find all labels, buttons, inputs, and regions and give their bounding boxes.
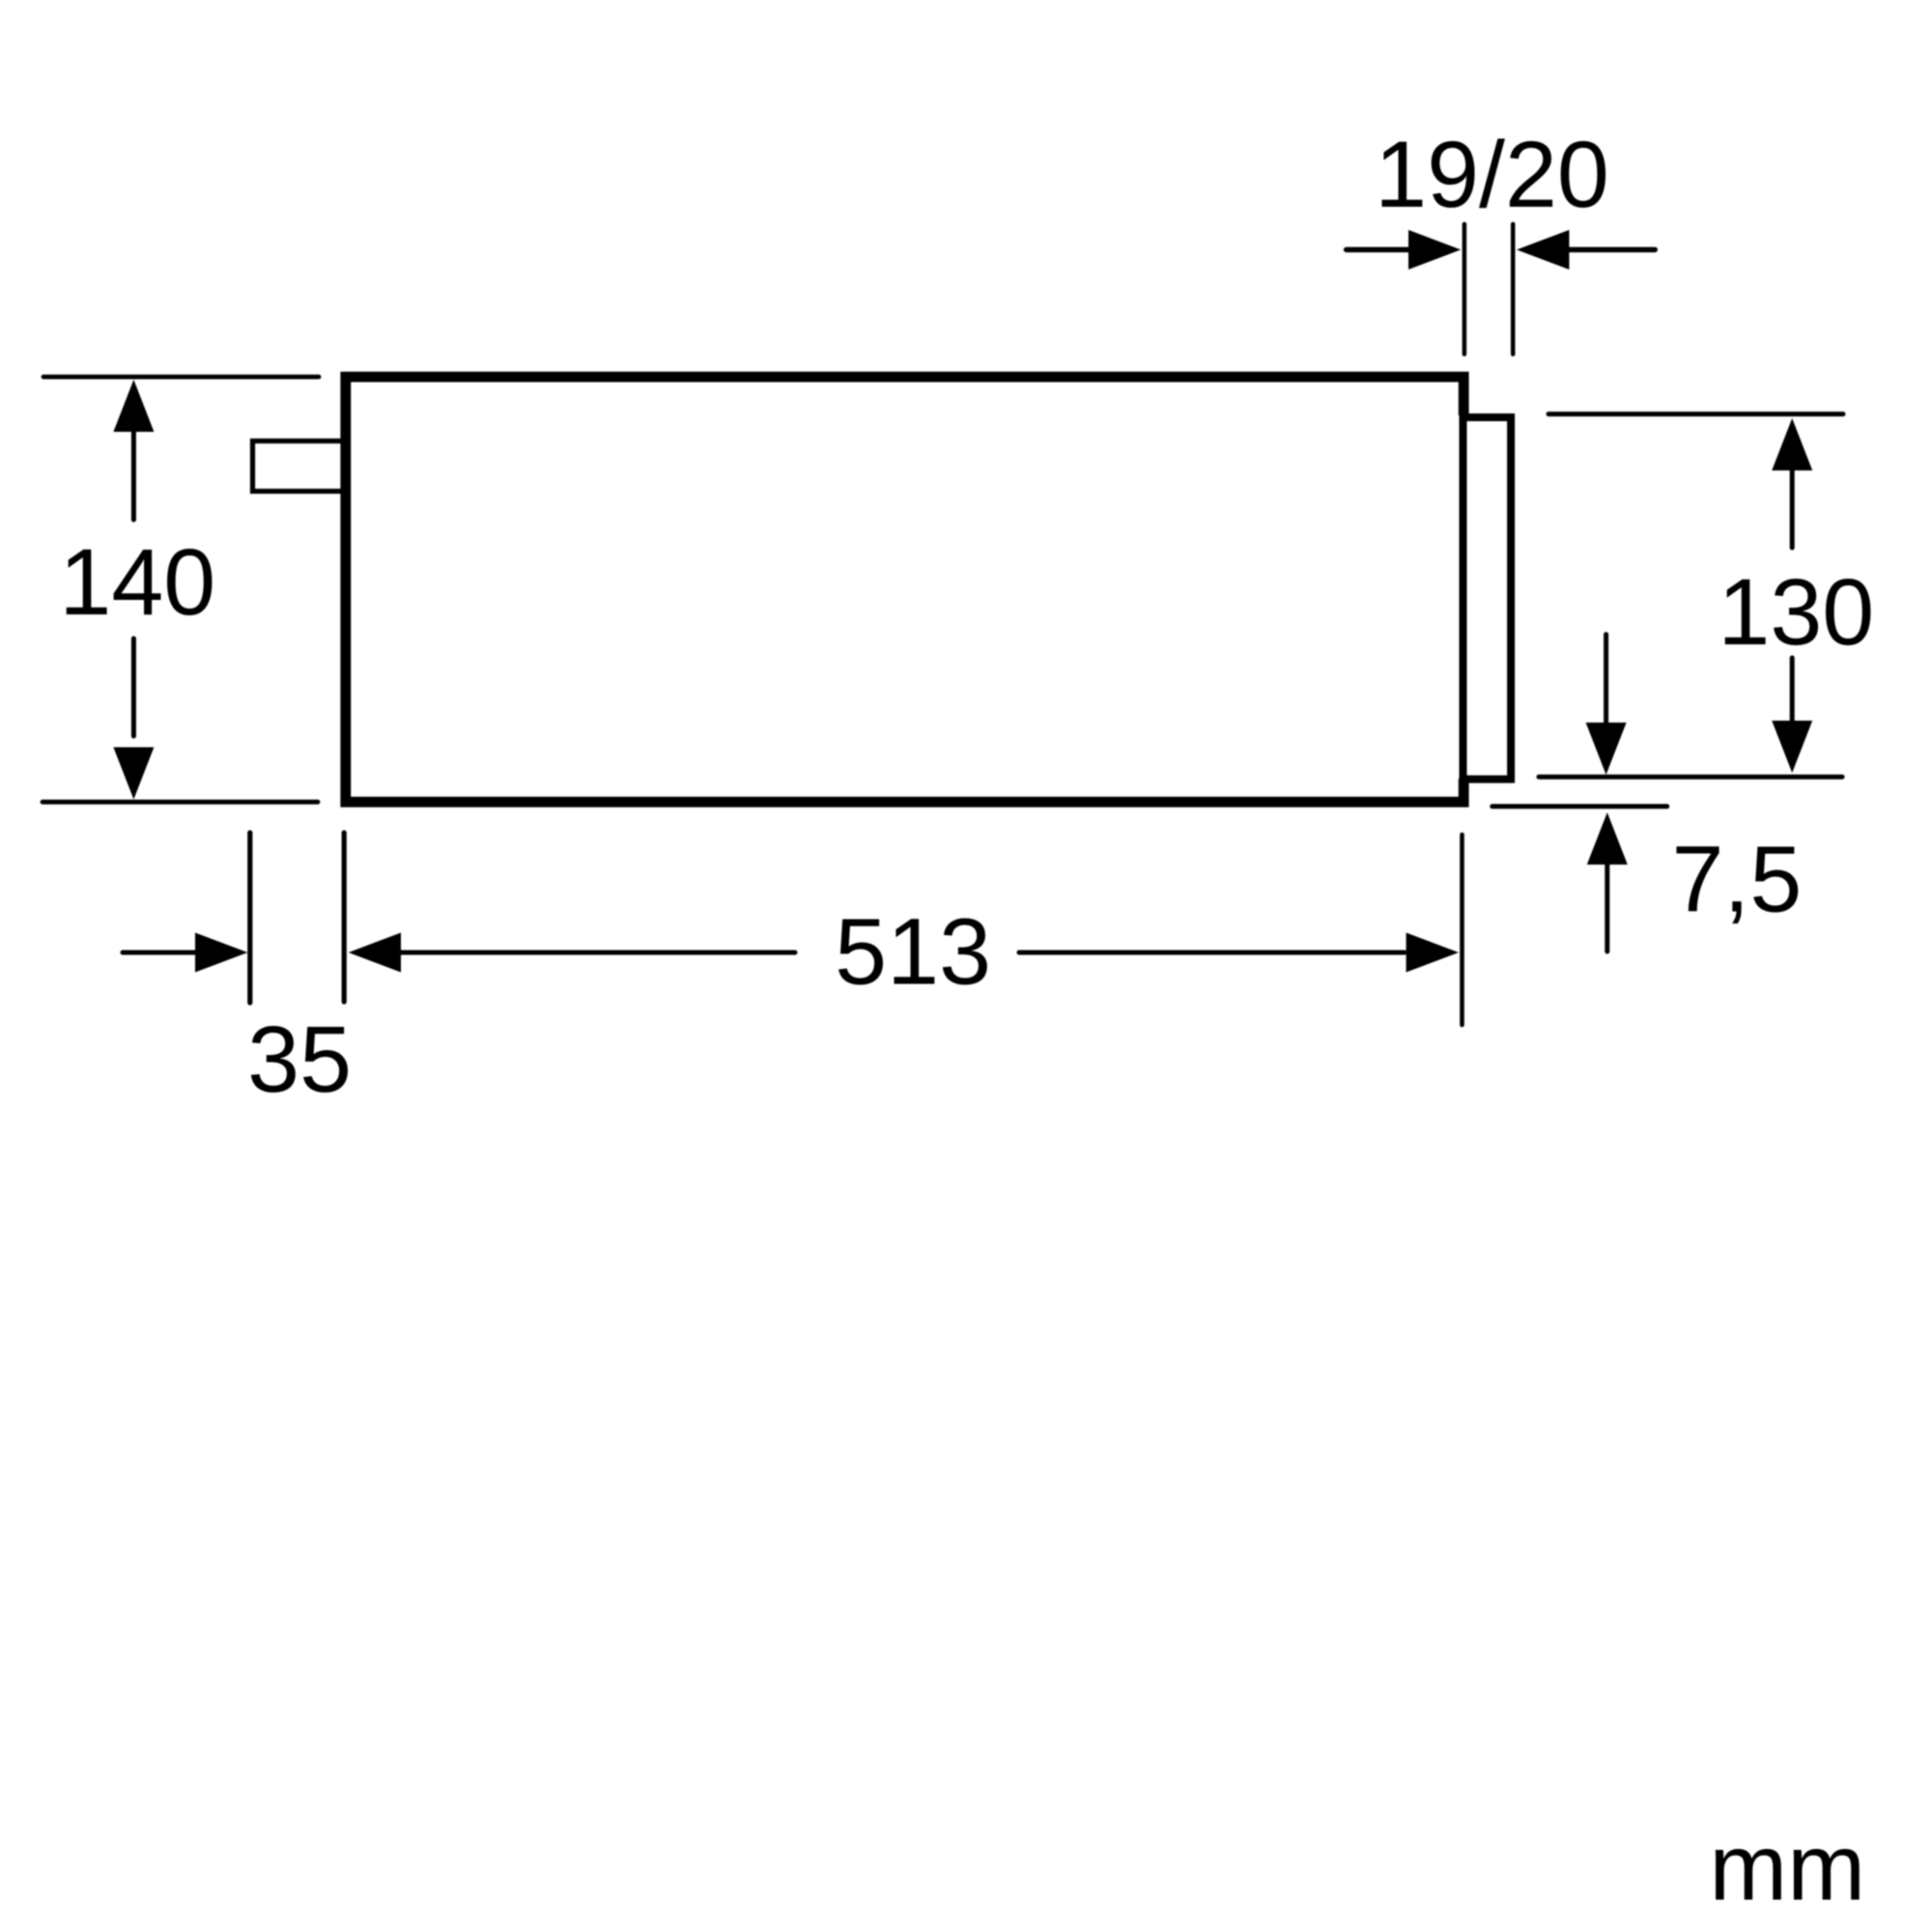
svg-text:513: 513	[835, 899, 991, 1005]
dimension 19/20 left shaft	[1347, 247, 1408, 252]
dimension 140 lower shaft	[131, 639, 136, 736]
dimension 513 left arrowhead	[349, 933, 401, 973]
dimension 513 right extension line	[1460, 835, 1464, 1025]
dimension 513 right arrowhead	[1406, 933, 1459, 973]
dimension 140 upper shaft	[131, 432, 136, 520]
dimension 7,5 lower extension line	[1492, 804, 1667, 809]
dimension 140 lower arrowhead	[113, 748, 154, 800]
dimension 140 top extension line	[43, 375, 319, 380]
dimension 140 bottom extension line	[43, 800, 318, 805]
dimension 7,5 up arrowhead	[1587, 812, 1628, 865]
control knob	[253, 441, 346, 492]
svg-text:7,5: 7,5	[1671, 827, 1802, 932]
appliance body outline	[346, 377, 1463, 802]
dimension 130 bottom extension line	[1539, 775, 1842, 780]
dimension 140 upper arrowhead	[113, 380, 154, 432]
dimension 130 upper shaft	[1790, 470, 1795, 548]
svg-text:19/20: 19/20	[1375, 122, 1609, 227]
dimension 130 top extension line	[1548, 412, 1843, 416]
svg-text:mm: mm	[1709, 1815, 1865, 1920]
door front panel	[1463, 417, 1512, 780]
dimension 35 left shaft	[123, 951, 195, 955]
svg-text:130: 130	[1718, 559, 1874, 665]
dimension 7,5 down arrowhead	[1586, 723, 1627, 775]
dimension 19/20 left extension line	[1463, 224, 1467, 355]
dimension 130 upper arrowhead	[1772, 418, 1812, 470]
dimension 7,5 upper shaft	[1604, 635, 1608, 723]
svg-text:140: 140	[59, 529, 215, 635]
svg-text:35: 35	[247, 1007, 352, 1112]
dimension 130 lower shaft	[1790, 658, 1795, 724]
dimension 19/20 left arrowhead	[1408, 230, 1461, 270]
dimension 35 left extension line	[247, 833, 252, 1003]
dimension 19/20 right shaft	[1569, 247, 1655, 252]
dimension 35 right extension line	[342, 833, 347, 1002]
dimension 513 left shaft	[401, 951, 795, 955]
dimension 513 right shaft	[1019, 951, 1405, 955]
dimension 19/20 right arrowhead	[1517, 230, 1569, 270]
dimension 7,5 lower shaft	[1605, 865, 1609, 952]
dimension 130 lower arrowhead	[1772, 721, 1812, 773]
dimension 35 left arrowhead	[195, 933, 247, 973]
dimension 19/20 right extension line	[1511, 224, 1516, 355]
